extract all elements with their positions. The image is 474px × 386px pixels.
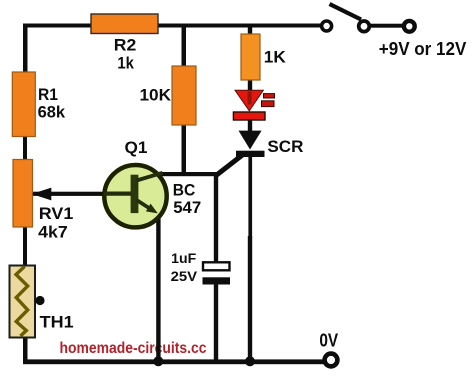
svg-text:Q1: Q1 — [125, 138, 148, 157]
svg-text:10K: 10K — [140, 85, 172, 104]
svg-text:0V: 0V — [319, 330, 338, 351]
svg-text:+9V or 12V: +9V or 12V — [379, 38, 467, 59]
svg-text:R2: R2 — [114, 36, 137, 55]
svg-text:68k: 68k — [38, 102, 66, 121]
svg-text:BC: BC — [173, 181, 196, 200]
svg-text:25V: 25V — [171, 268, 198, 284]
svg-text:547: 547 — [173, 198, 201, 217]
svg-text:SCR: SCR — [267, 137, 303, 156]
svg-text:1k: 1k — [117, 54, 134, 73]
svg-text:TH1: TH1 — [40, 312, 74, 331]
svg-text:RV1: RV1 — [39, 204, 74, 223]
svg-text:R1: R1 — [38, 85, 58, 104]
svg-text:4k7: 4k7 — [38, 222, 67, 241]
svg-text:homemade-circuits.cc: homemade-circuits.cc — [60, 340, 207, 357]
svg-text:1uF: 1uF — [171, 250, 196, 266]
svg-text:1K: 1K — [264, 47, 287, 66]
